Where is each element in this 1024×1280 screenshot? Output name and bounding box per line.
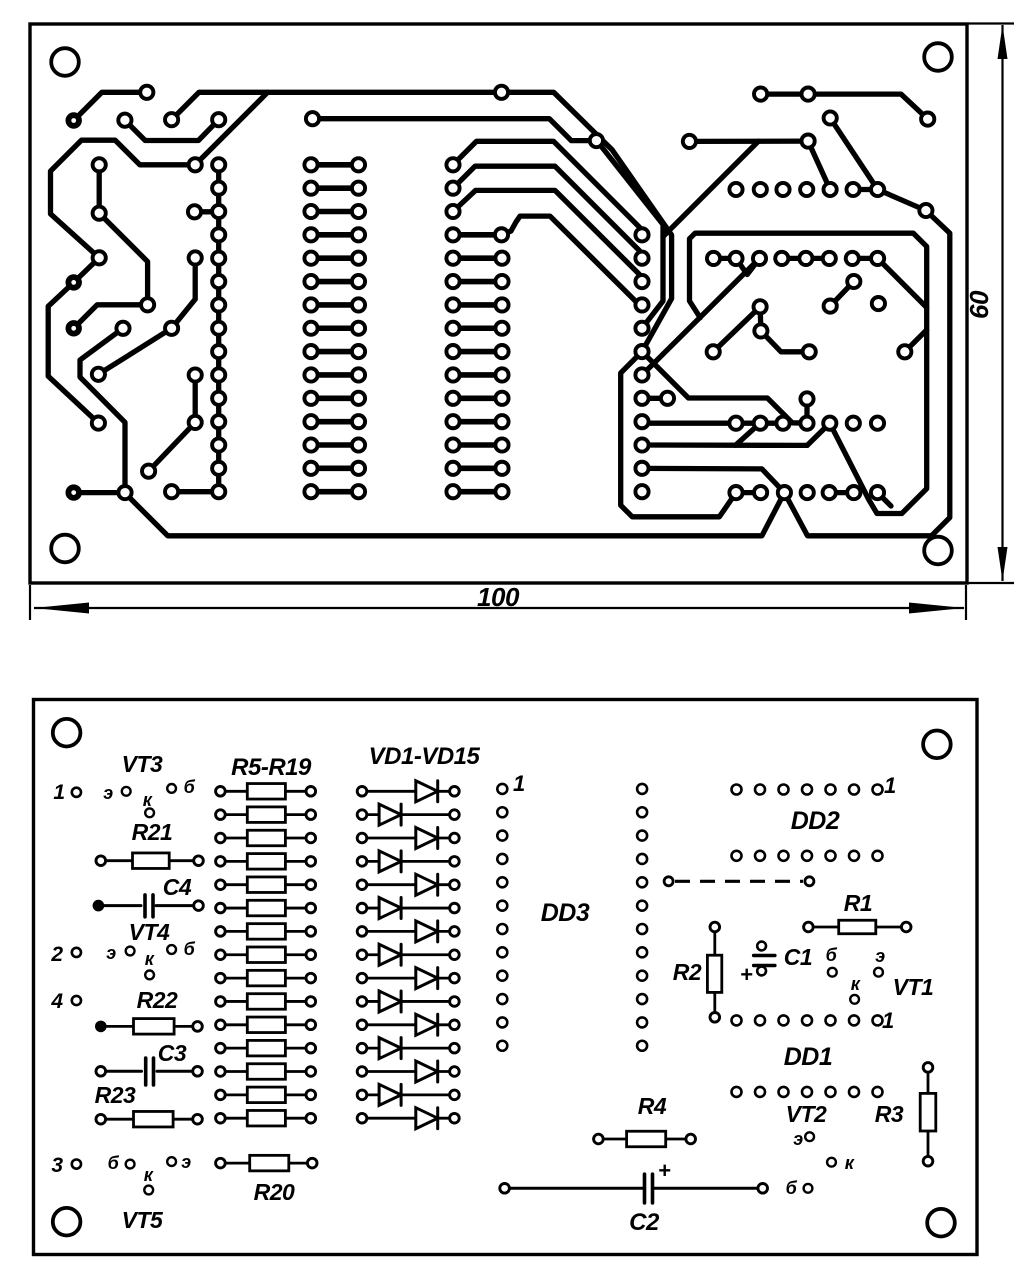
pads DD1 row 2: [729, 486, 742, 499]
wire: [736, 490, 761, 495]
svg-text:R3: R3: [875, 1101, 904, 1127]
connector pad 2: [72, 948, 81, 957]
wire: [735, 423, 760, 445]
wire: [642, 396, 668, 401]
connector pad 4: [72, 996, 81, 1005]
svg-text:R22: R22: [137, 987, 178, 1013]
dimension extension lines: [968, 22, 1014, 24]
component-side board outline: [34, 700, 978, 1255]
pads left region: [140, 86, 153, 99]
svg-text:б: б: [184, 939, 196, 959]
wire: [149, 422, 196, 471]
svg-text:R21: R21: [132, 819, 173, 845]
wire: [878, 258, 927, 307]
wire: [642, 258, 760, 375]
svg-text:VT1: VT1: [893, 974, 934, 1000]
wire: [313, 119, 597, 141]
mounting hole bottom-right: [924, 537, 952, 565]
wire: [714, 256, 737, 261]
resistor R2: [713, 927, 716, 955]
resistor R1: [808, 926, 838, 929]
wire: [642, 352, 807, 424]
pads DD3 columns: [497, 784, 507, 794]
wire: [453, 166, 647, 258]
jumper bars right ladder: [453, 255, 502, 261]
wire: [74, 258, 100, 283]
svg-text:R4: R4: [638, 1093, 667, 1119]
resistor R23: [101, 1118, 134, 1121]
pads DD3 column: [635, 228, 648, 241]
svg-text:DD3: DD3: [541, 899, 590, 927]
wire: [878, 493, 892, 506]
transistor VT4: [126, 947, 135, 956]
svg-text:3: 3: [51, 1154, 63, 1177]
svg-text:R1: R1: [844, 890, 872, 916]
svg-text:DD1: DD1: [784, 1043, 833, 1071]
svg-text:б: б: [786, 1178, 798, 1198]
wire: [97, 165, 102, 213]
svg-text:+: +: [740, 962, 753, 987]
wire: [713, 307, 809, 352]
pads DD2: [732, 785, 742, 795]
resistor R22: [101, 1025, 134, 1028]
wire: [853, 187, 878, 192]
svg-text:к: к: [143, 790, 153, 810]
wire: [642, 442, 807, 448]
transistor VT5: [126, 1160, 135, 1169]
wire: [642, 422, 783, 424]
svg-text:VT4: VT4: [129, 919, 170, 945]
transistor VT1: [828, 968, 837, 977]
pads left ladder: [304, 158, 317, 171]
wire: [663, 141, 759, 237]
svg-text:VD1-VD15: VD1-VD15: [369, 743, 481, 770]
svg-text:100: 100: [477, 582, 520, 612]
mounting hole bottom-left: [53, 1208, 81, 1236]
connector pad 1: [72, 788, 81, 797]
pads DD1 row 1: [729, 417, 742, 430]
wire: [782, 256, 830, 261]
wire: [761, 94, 928, 119]
mounting hole bottom-right: [927, 1209, 955, 1237]
pads right middle: [847, 275, 860, 288]
pads right ladder: [446, 158, 459, 171]
transistor VT2: [805, 1132, 814, 1141]
svg-text:C2: C2: [629, 1209, 660, 1236]
wire: [74, 490, 125, 495]
resistor R21: [101, 859, 133, 862]
svg-text:VT5: VT5: [122, 1207, 164, 1233]
pads centre column: [212, 158, 225, 171]
wire: [829, 490, 854, 495]
wire: [642, 468, 784, 492]
mounting hole top-right: [924, 43, 952, 71]
wire: [736, 258, 760, 274]
wire: [830, 118, 877, 190]
wire: [74, 92, 147, 120]
pads DD1: [732, 1015, 742, 1025]
svg-text:1: 1: [884, 773, 896, 798]
transistor VT3: [122, 787, 131, 796]
wire: [596, 141, 663, 329]
svg-text:б: б: [826, 945, 838, 965]
svg-text:+: +: [658, 1158, 671, 1183]
wire: [172, 258, 196, 328]
wire: [74, 305, 148, 329]
wire: [905, 330, 927, 352]
wire: [98, 328, 171, 374]
wire: [80, 328, 125, 492]
wire: [125, 211, 950, 536]
wire: [216, 165, 221, 492]
wire: [193, 375, 198, 422]
svg-text:R2: R2: [673, 959, 702, 985]
svg-text:э: э: [875, 946, 885, 966]
mounting hole bottom-left: [51, 535, 79, 563]
wire: [48, 282, 98, 423]
wire: [690, 233, 927, 513]
svg-text:VT3: VT3: [122, 751, 163, 777]
dashed jumper wire: [675, 880, 803, 883]
svg-text:к: к: [144, 1165, 154, 1185]
resistor R4: [598, 1138, 626, 1141]
capacitor C3: [101, 1070, 142, 1073]
wire: [621, 352, 736, 517]
svg-text:э: э: [106, 943, 116, 963]
PCB copper-side drawing, board outline: [30, 24, 967, 583]
svg-text:к: к: [845, 1153, 855, 1173]
wire: [808, 141, 830, 189]
svg-text:б: б: [108, 1153, 120, 1173]
svg-text:1: 1: [53, 781, 64, 804]
svg-text:к: к: [851, 974, 861, 994]
svg-text:к: к: [145, 949, 155, 969]
horizontal dimension line 100: [34, 607, 964, 609]
svg-text:э: э: [793, 1129, 803, 1149]
mounting hole top-left: [53, 719, 81, 747]
resistor R3: [927, 1067, 930, 1093]
svg-text:DD2: DD2: [791, 807, 840, 835]
wire: [125, 120, 219, 141]
mounting hole top-right: [923, 731, 951, 759]
svg-text:60: 60: [964, 290, 994, 319]
svg-text:C4: C4: [163, 874, 192, 900]
wire: [99, 213, 147, 305]
wire: [878, 190, 926, 211]
bold connector pads: [66, 112, 82, 128]
svg-text:э: э: [103, 783, 113, 803]
vertical dimension line 60: [1001, 25, 1003, 581]
svg-text:4: 4: [50, 990, 63, 1013]
wire: [195, 209, 219, 214]
capacitor C4: [98, 904, 141, 907]
resistor R20: [220, 1162, 249, 1165]
mounting hole top-left: [51, 48, 79, 76]
diodes VD1-VD15: [362, 790, 416, 793]
wire: [804, 399, 809, 423]
jumper bars left ladder: [311, 162, 359, 168]
svg-text:б: б: [184, 777, 196, 797]
svg-text:1: 1: [882, 1008, 894, 1033]
wire: [453, 190, 647, 281]
wire: [172, 92, 672, 351]
wire: [502, 216, 643, 305]
pads DD2 row 1: [729, 183, 742, 196]
resistors R5-R19: [220, 790, 247, 793]
svg-text:R23: R23: [95, 1082, 136, 1108]
wire: [453, 141, 647, 235]
wire: [852, 256, 877, 261]
wire: [195, 92, 268, 165]
svg-text:C3: C3: [158, 1040, 187, 1066]
capacitor C1: [757, 942, 766, 951]
wire: [172, 489, 219, 494]
svg-text:R20: R20: [254, 1179, 295, 1205]
svg-text:э: э: [181, 1152, 191, 1172]
capacitor C2: [505, 1187, 643, 1190]
svg-text:1: 1: [513, 771, 525, 796]
svg-text:2: 2: [50, 943, 63, 966]
wire: [51, 140, 196, 258]
connector pad 3: [72, 1160, 81, 1169]
wire: [689, 138, 808, 144]
svg-text:C1: C1: [784, 944, 812, 970]
pads top middle: [495, 86, 508, 99]
svg-text:VT2: VT2: [786, 1101, 827, 1127]
wire: [830, 282, 854, 307]
pads DD2 row 2: [707, 252, 720, 265]
svg-text:R5-R19: R5-R19: [231, 754, 312, 781]
